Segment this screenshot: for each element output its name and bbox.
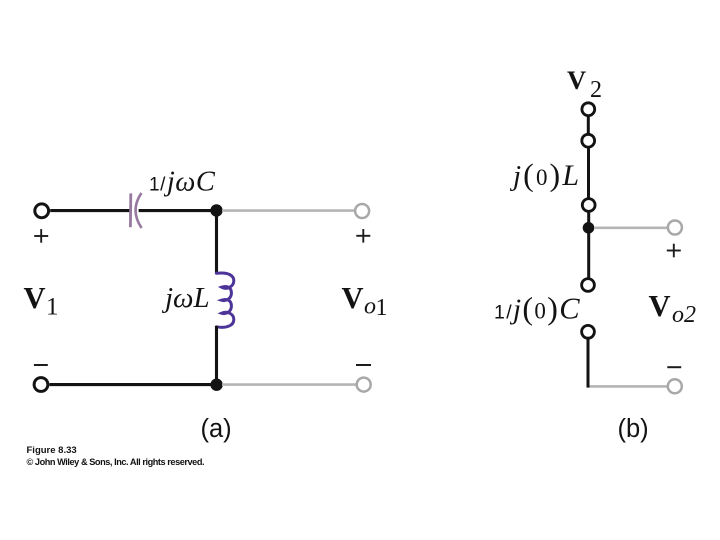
terminal top (b) — [582, 103, 595, 116]
node A junction dot (a) top — [210, 204, 222, 216]
open-circuit circle inductor top (b) — [582, 134, 595, 147]
open-circuit circle capacitor bottom (b) — [582, 325, 595, 338]
minus sign input (a) — [34, 364, 48, 366]
wire capacitor bottom down (b) — [587, 338, 590, 387]
svg-text:V: V — [649, 289, 671, 323]
label Vo1 output — [342, 281, 388, 321]
terminal input bottom-left (a) — [34, 378, 48, 392]
svg-text:1/jωC: 1/jωC — [149, 167, 216, 198]
value label j(0)L — [509, 157, 581, 193]
plus sign output (a) — [356, 229, 370, 243]
svg-text:(b): (b) — [618, 415, 649, 443]
svg-text:1/j(0)C: 1/j(0)C — [494, 290, 581, 326]
svg-text:1: 1 — [46, 294, 59, 321]
wire node A down to inductor — [215, 211, 218, 275]
wire gray to output top (a) — [222, 209, 355, 212]
open-circuit circle inductor bottom (b) — [582, 199, 595, 212]
svg-text:o: o — [364, 294, 376, 320]
value label 1/j(0)C — [494, 290, 581, 326]
node B junction dot (a) bottom — [210, 379, 222, 391]
value label 1/jwC — [149, 167, 216, 198]
wire gray node C to output plus terminal (b) — [594, 227, 667, 230]
terminal output plus (b) gray — [668, 221, 682, 235]
wire short-circuit through inductor region (b) — [587, 147, 590, 198]
svg-text:1: 1 — [376, 295, 388, 321]
plus sign output (b) — [667, 244, 681, 258]
svg-text:j(0)L: j(0)L — [509, 157, 581, 193]
terminal output top-right (a) gray — [355, 204, 369, 218]
wire to node C (b) — [587, 212, 590, 223]
inductor L (jwL) coil — [216, 273, 233, 327]
svg-text:© John Wiley & Sons, Inc. All: © John Wiley & Sons, Inc. All rights res… — [27, 457, 205, 467]
minus sign output (a) — [356, 364, 371, 366]
value label jwL — [161, 282, 210, 314]
label V1 source — [24, 281, 59, 321]
wire inductor down to node B — [215, 326, 218, 385]
wire input bottom (a) — [50, 383, 216, 386]
wire terminal to inductor top plate (b) — [587, 116, 590, 134]
wire node C down to capacitor top plate (b) — [587, 232, 590, 278]
terminal output bottom-right (a) gray — [357, 378, 371, 392]
capacitor C (1/jwC) — [130, 193, 141, 228]
wire gray bottom to output minus terminal (b) — [590, 385, 668, 388]
label Vo2 output (b) — [649, 289, 697, 328]
wire capacitor to node A — [139, 209, 215, 212]
wire input top (a) — [50, 209, 130, 212]
svg-text:2: 2 — [590, 77, 602, 103]
svg-text:jωL: jωL — [161, 282, 210, 314]
sub-figure label (b) — [618, 415, 649, 443]
terminal input top-left (a) — [35, 204, 49, 218]
plus sign input (a) — [34, 229, 48, 243]
svg-text:(a): (a) — [201, 415, 232, 443]
svg-text:V: V — [24, 281, 46, 315]
svg-text:V: V — [567, 65, 586, 95]
svg-text:Figure 8.33: Figure 8.33 — [27, 445, 77, 456]
label V2 source (b) — [567, 65, 602, 103]
wire gray to output bottom (a) — [222, 383, 356, 386]
minus sign output (b) — [667, 366, 681, 368]
svg-text:o2: o2 — [672, 302, 696, 328]
caption copyright — [27, 457, 205, 467]
caption figure number — [27, 445, 77, 456]
node C junction dot (b) — [583, 222, 595, 234]
sub-figure label (a) — [201, 415, 232, 443]
terminal output minus (b) gray — [668, 379, 682, 393]
open-circuit circle capacitor top (b) — [582, 279, 595, 292]
svg-text:V: V — [342, 281, 364, 315]
